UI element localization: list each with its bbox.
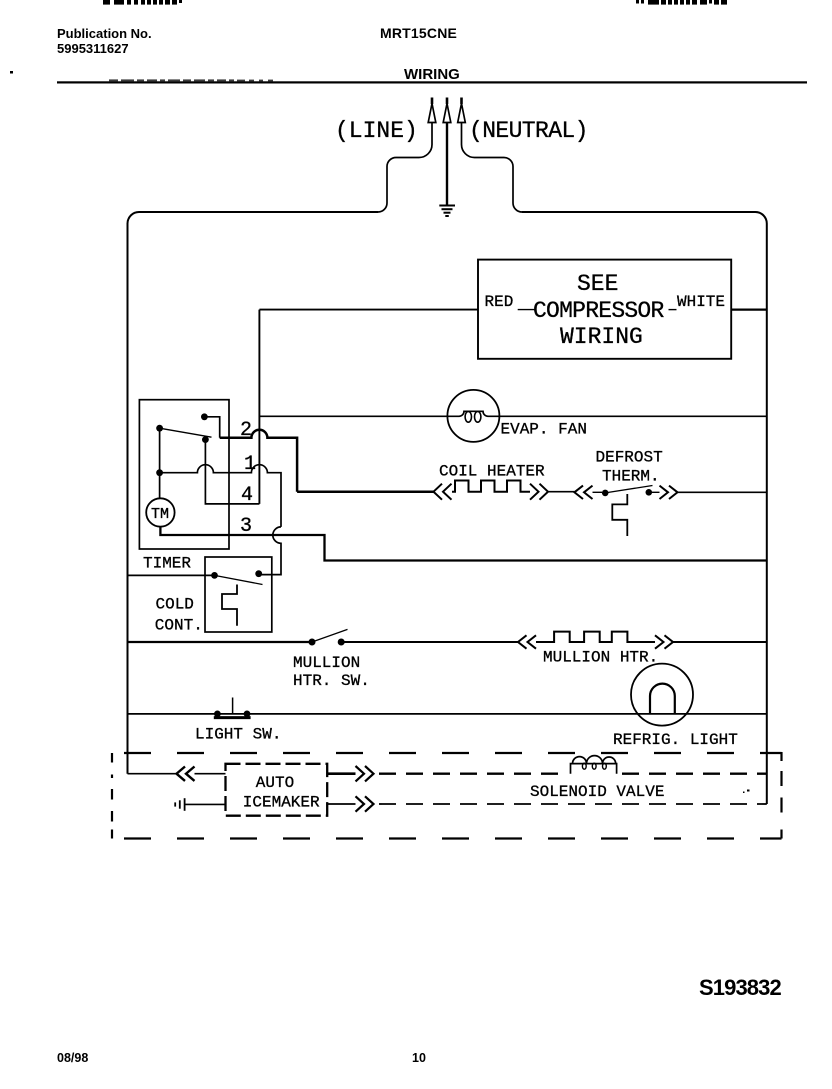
svg-text:4: 4 — [241, 484, 253, 507]
svg-text:Publication No.: Publication No. — [57, 26, 152, 41]
svg-text:MULLION: MULLION — [293, 654, 360, 672]
wire from mid contact down — [205, 440, 259, 504]
svg-text:REFRIG. LIGHT: REFRIG. LIGHT — [613, 731, 738, 749]
svg-text:WHITE: WHITE — [677, 293, 725, 311]
evap fan winding — [447, 411, 499, 416]
svg-text:ICEMAKER: ICEMAKER — [243, 794, 320, 812]
mullion switch dot right — [338, 639, 345, 646]
svg-text:SEE: SEE — [577, 271, 618, 297]
line arrow terminal — [428, 98, 436, 123]
header rule — [57, 81, 807, 83]
evap winding loop 1 — [465, 411, 471, 422]
wire icemaker out row2 — [327, 803, 355, 805]
timer box — [139, 400, 229, 549]
mullion heater element — [536, 632, 655, 642]
wire to defrost therm — [548, 491, 574, 493]
solenoid loop 2 — [592, 763, 596, 769]
wire icemaker feed — [128, 773, 177, 775]
svg-text:S193832: S193832 — [699, 975, 781, 1000]
neutral arrow terminal — [458, 98, 466, 123]
mullion switch blade — [312, 629, 348, 642]
svg-text:HTR. SW.: HTR. SW. — [293, 672, 370, 690]
svg-text:SOLENOID VALVE: SOLENOID VALVE — [530, 783, 664, 801]
wire red inside box — [518, 309, 535, 311]
light switch dot right — [244, 711, 251, 718]
connector chevrons left of coil heater — [434, 484, 452, 500]
connector chevrons out row1 — [356, 766, 374, 781]
ground arrow terminal — [443, 98, 451, 123]
solenoid coil arcs — [573, 756, 616, 764]
defrost contact left — [602, 490, 609, 497]
solenoid loop 1 — [582, 763, 586, 769]
compressor box — [478, 260, 731, 359]
svg-text:MRT15CNE: MRT15CNE — [380, 25, 457, 41]
svg-text:WIRING: WIRING — [560, 324, 643, 350]
connector chevrons right of defrost — [660, 486, 678, 499]
wire: red vertical feeder — [258, 310, 260, 504]
dashed wire row1 to solenoid — [379, 773, 565, 775]
svg-text:THERM.: THERM. — [602, 468, 660, 486]
cold control bellows — [222, 585, 237, 626]
wire into defrost — [593, 491, 603, 493]
timer contact dot top — [201, 413, 208, 420]
timer junction dot — [156, 469, 163, 476]
cold switch blade — [215, 575, 263, 584]
wire ground to icemaker — [185, 803, 226, 805]
mullion switch dot left — [309, 639, 316, 646]
coil heater element — [452, 481, 530, 492]
svg-text:5995311627: 5995311627 — [57, 41, 129, 56]
wire light row — [128, 713, 767, 715]
svg-text:COLD: COLD — [156, 596, 194, 614]
icemaker kit dashed boundary top — [112, 752, 782, 754]
main enclosure border left — [128, 212, 379, 774]
wire evap row right — [499, 415, 766, 417]
auto icemaker dashed box — [226, 764, 328, 816]
clipped text fragment top right — [636, 0, 727, 5]
wire pin1 hop over row3 — [261, 527, 281, 575]
wire defrost to right border — [678, 491, 767, 493]
icemaker kit dashed boundary right — [780, 752, 782, 839]
connector chevrons right of coil heater — [530, 484, 548, 500]
wire mullion to right border — [673, 641, 767, 643]
wire defrost out — [650, 491, 660, 493]
evap winding loop 2 — [475, 411, 481, 422]
dashed wire solenoid to right border — [622, 773, 767, 775]
timer switch blade — [160, 428, 212, 437]
svg-text:LIGHT SW.: LIGHT SW. — [195, 726, 281, 744]
solenoid loop 3 — [603, 763, 607, 769]
wire cold control feed — [128, 574, 215, 576]
connector chevrons left of mullion htr — [518, 635, 536, 648]
light switch bridge — [214, 716, 251, 719]
cold contact dot right — [255, 570, 262, 577]
clipped text fragment top left — [103, 0, 182, 5]
svg-text:COIL HEATER: COIL HEATER — [439, 463, 545, 481]
svg-text:10: 10 — [412, 1051, 426, 1065]
svg-text:RED: RED — [485, 293, 514, 311]
connector chevrons out row2 — [356, 796, 374, 811]
wire pin1 row with hops — [160, 465, 281, 527]
icemaker kit dashed boundary bottom — [112, 837, 782, 839]
svg-text:DEFROST: DEFROST — [596, 449, 663, 467]
solenoid valve coil — [571, 764, 617, 774]
wire white row to right border — [731, 309, 767, 311]
icemaker ground symbol — [175, 798, 184, 811]
stray speck near kit box — [747, 790, 750, 792]
defrost contact right — [646, 489, 653, 496]
light switch dot left — [214, 711, 221, 718]
wire: line lead-in curve — [378, 123, 432, 213]
svg-text:TIMER: TIMER — [143, 555, 191, 573]
defrost capillary — [612, 494, 627, 536]
svg-text:(NEUTRAL): (NEUTRAL) — [469, 118, 588, 144]
faint smudge on rule — [109, 79, 273, 82]
defrost blade — [605, 486, 652, 493]
cold control box — [205, 557, 272, 632]
icemaker kit dashed boundary left — [111, 753, 113, 839]
stray dot left margin — [10, 71, 13, 74]
ground symbol — [439, 206, 455, 217]
wire timer pin2 lead — [204, 417, 219, 438]
wire to icemaker box — [195, 773, 226, 775]
connector chevrons icemaker feed — [177, 767, 195, 781]
connector chevrons left of defrost — [574, 486, 592, 499]
svg-text:AUTO: AUTO — [256, 774, 294, 792]
evap fan motor circle — [447, 390, 499, 442]
wire: neutral lead-in curve — [462, 123, 523, 213]
wire icemaker out row1 — [327, 772, 355, 775]
refrigerator light bulb — [631, 664, 693, 726]
timer contact dot mid — [202, 436, 209, 443]
wire left vertical to TM — [159, 428, 161, 498]
dashed wire row2 to right border — [379, 803, 767, 805]
ground lead wire — [446, 123, 448, 205]
cold contact dot left — [211, 572, 218, 579]
svg-text:CONT.: CONT. — [155, 617, 203, 635]
svg-text:TM: TM — [151, 506, 169, 523]
wire white inside box — [669, 309, 677, 311]
svg-text:EVAP. FAN: EVAP. FAN — [501, 421, 587, 439]
svg-text:08/98: 08/98 — [57, 1051, 88, 1065]
bulb filament — [650, 684, 675, 714]
wire coil heater row left — [297, 490, 434, 493]
svg-text:COMPRESSOR: COMPRESSOR — [533, 298, 664, 324]
svg-text:(LINE): (LINE) — [335, 118, 418, 144]
svg-text:WIRING: WIRING — [404, 66, 460, 83]
wire row3 from TM — [160, 527, 766, 561]
wire red row — [259, 309, 478, 311]
wire mullion mid — [344, 641, 518, 643]
timer motor TM — [146, 498, 174, 526]
wire evap fan row — [259, 415, 447, 417]
connector chevrons right of mullion htr — [655, 635, 673, 648]
wire mullion row left — [128, 641, 312, 643]
timer contact dot left — [156, 425, 163, 432]
wire pin2 row with hop — [220, 430, 297, 492]
svg-text:MULLION HTR.: MULLION HTR. — [543, 649, 658, 667]
light switch actuator — [232, 698, 234, 714]
main enclosure border right — [522, 212, 767, 804]
